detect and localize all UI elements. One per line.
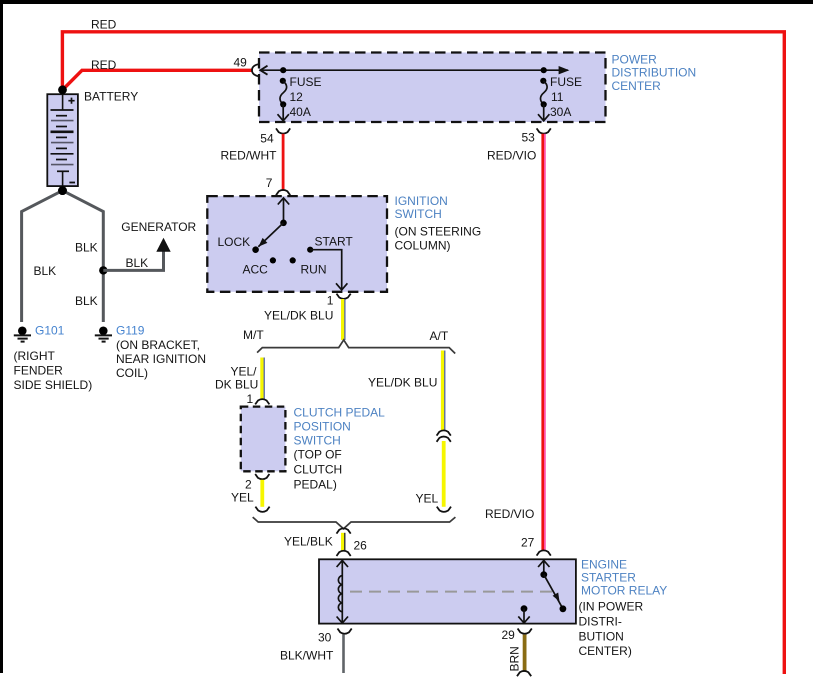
svg-text:SIDE SHIELD): SIDE SHIELD) (14, 378, 93, 392)
pin 2 connector (clutch switch) (255, 474, 269, 479)
svg-text:RED: RED (91, 18, 117, 32)
svg-text:YEL/DK BLU: YEL/DK BLU (368, 376, 437, 390)
svg-text:7: 7 (266, 176, 273, 190)
wire end connector BRN (517, 671, 531, 676)
svg-text:(ON STEERING: (ON STEERING (395, 224, 482, 238)
svg-text:ACC: ACC (243, 262, 269, 276)
wire BLK/WHT from pin 30 (342, 635, 345, 673)
wire end connector M/T (255, 507, 269, 512)
svg-text:(ON BRACKET,: (ON BRACKET, (116, 338, 200, 352)
wire YEL/DK BLU M/T branch (260, 358, 263, 400)
page left black bar (0, 0, 3, 673)
node START contact (307, 247, 313, 253)
svg-text:ENGINE: ENGINE (581, 557, 627, 571)
inline connector on A/T branch (437, 430, 451, 435)
svg-text:SWITCH: SWITCH (395, 207, 442, 221)
node relay fixed contact (560, 605, 567, 612)
svg-text:STARTER: STARTER (581, 571, 636, 585)
wire YEL/DK BLU ignition pin 1 to M/T A/T split (341, 299, 344, 340)
svg-text:54: 54 (260, 132, 274, 146)
pin 53 connector (537, 128, 551, 133)
svg-text:PEDAL): PEDAL) (294, 478, 337, 492)
svg-text:(IN POWER: (IN POWER (579, 599, 644, 613)
svg-text:SWITCH: SWITCH (294, 433, 341, 447)
svg-text:DK BLU: DK BLU (215, 378, 258, 392)
svg-text:30A: 30A (550, 105, 571, 119)
wire START contact to pin 1 (310, 250, 342, 290)
node battery negative terminal (58, 186, 67, 195)
svg-text:CLUTCH PEDAL: CLUTCH PEDAL (294, 405, 386, 419)
node RUN contact (290, 257, 296, 263)
pin 49 connector (252, 64, 258, 76)
svg-text:COIL): COIL) (116, 366, 148, 380)
wire YEL/BLK splice to relay pin 26 (341, 533, 344, 551)
svg-text:YEL/: YEL/ (231, 365, 258, 379)
relay internal dashed divider (350, 591, 555, 593)
svg-text:G119: G119 (116, 323, 145, 337)
svg-text:FENDER: FENDER (14, 364, 64, 378)
svg-text:BLK: BLK (75, 294, 98, 308)
svg-text:BRN: BRN (508, 646, 522, 671)
svg-text:POWER: POWER (612, 52, 658, 66)
node battery negative terminal (overlay) (58, 186, 67, 195)
svg-text:RUN: RUN (301, 262, 327, 276)
ground G101 (14, 327, 31, 342)
pin 29 connector (518, 629, 532, 634)
wire BLK battery negative to G119 (63, 191, 104, 322)
svg-text:FUSE: FUSE (550, 75, 582, 89)
node relay switch pivot (540, 571, 547, 578)
joint connector below splice (337, 528, 351, 533)
engine starter motor relay box (319, 559, 576, 623)
relay coil (337, 560, 348, 623)
svg-text:GENERATOR: GENERATOR (121, 220, 196, 234)
svg-text:49: 49 (234, 55, 248, 69)
svg-text:1: 1 (327, 293, 334, 307)
wire RED/WHT pin 54 to ignition switch pin 7 (282, 134, 285, 191)
svg-text:YEL/BLK: YEL/BLK (284, 535, 333, 549)
arrow to GENERATOR (156, 238, 170, 252)
svg-text:2: 2 (245, 477, 252, 491)
svg-text:G101: G101 (35, 323, 65, 337)
ignition rotor arm to LOCK (258, 223, 283, 247)
svg-text:11: 11 (551, 90, 564, 104)
svg-text:A/T: A/T (430, 329, 449, 343)
svg-text:CLUTCH: CLUTCH (294, 463, 343, 477)
svg-text:RED/VIO: RED/VIO (485, 507, 534, 521)
svg-text:12: 12 (290, 90, 304, 104)
node ignition rotor pivot (280, 220, 287, 227)
pin 1 connector (ignition) (337, 294, 351, 299)
svg-text:RED/VIO: RED/VIO (487, 149, 536, 163)
svg-text:29: 29 (502, 628, 516, 642)
svg-text:NEAR IGNITION: NEAR IGNITION (116, 352, 206, 366)
svg-text:BUTION: BUTION (579, 629, 624, 643)
relay switch blade (544, 575, 563, 609)
wire RED battery to PDC pin 49 (62, 70, 252, 90)
wire YEL M/T branch lower (260, 480, 264, 507)
node battery positive terminal (58, 85, 67, 94)
svg-text:30: 30 (318, 630, 332, 644)
svg-text:YEL: YEL (416, 491, 439, 505)
splice split M/T A/T (257, 340, 455, 354)
node ACC contact (270, 257, 276, 263)
svg-text:1: 1 (247, 392, 254, 406)
svg-text:CENTER): CENTER) (579, 644, 632, 658)
svg-text:BLK: BLK (75, 240, 98, 254)
power distribution center box (259, 53, 606, 123)
pin 7 connector (276, 190, 290, 195)
wire BLK junction to generator (103, 252, 163, 271)
svg-text:YEL: YEL (231, 491, 254, 505)
svg-text:RED/WHT: RED/WHT (221, 149, 278, 163)
svg-text:MOTOR RELAY: MOTOR RELAY (581, 584, 667, 598)
svg-text:40A: 40A (290, 105, 311, 119)
node LOCK contact (252, 246, 259, 253)
svg-text:DISTRI-: DISTRI- (579, 615, 622, 629)
pin 26 connector (337, 551, 351, 556)
wire YEL A/T branch lower (442, 441, 446, 507)
ignition switch internal feed arrow (283, 198, 285, 223)
pin 27 connector (537, 550, 551, 555)
splice join to YEL/BLK (253, 517, 456, 529)
svg-text:LOCK: LOCK (218, 235, 251, 249)
svg-text:YEL/DK BLU: YEL/DK BLU (264, 309, 333, 323)
wire BLK battery negative to G101 (22, 191, 63, 322)
junction on BLK wire (99, 266, 107, 274)
svg-text:BLK/WHT: BLK/WHT (280, 648, 334, 662)
battery BATTERY (47, 94, 78, 186)
svg-text:IGNITION: IGNITION (395, 194, 448, 208)
wire RED/VIO pin 53 to relay pin 27 (541, 134, 544, 551)
ground G119 (95, 327, 112, 342)
wire BRN from pin 29 (523, 635, 527, 672)
svg-text:FUSE: FUSE (290, 75, 322, 89)
svg-text:RED: RED (91, 58, 117, 72)
svg-text:27: 27 (521, 536, 535, 550)
wire end connector A/T (437, 507, 451, 512)
wire PDC internal bus (260, 69, 568, 71)
svg-text:26: 26 (354, 538, 368, 552)
svg-text:DISTRIBUTION: DISTRIBUTION (612, 66, 697, 80)
pin 1 connector (clutch switch) (255, 399, 269, 404)
svg-text:M/T: M/T (243, 328, 264, 342)
clutch pedal position switch box (241, 407, 286, 472)
svg-text:START: START (315, 234, 354, 248)
svg-text:BLK: BLK (34, 264, 57, 278)
fuse 11 30A (538, 67, 549, 121)
pin 30 connector (338, 629, 352, 634)
relay switch common from pin 27 (543, 560, 545, 574)
svg-text:53: 53 (522, 130, 536, 144)
svg-text:COLUMN): COLUMN) (395, 238, 451, 252)
svg-text:BATTERY: BATTERY (84, 90, 138, 104)
svg-text:BLK: BLK (126, 256, 149, 270)
fuse 12 40A (278, 67, 289, 121)
page top black bar (0, 0, 813, 4)
wire relay contact to pin 29 (523, 609, 525, 623)
pin 54 connector (276, 128, 290, 133)
svg-text:POSITION: POSITION (294, 419, 351, 433)
wire YEL/DK BLU A/T branch (441, 351, 444, 432)
svg-text:(RIGHT: (RIGHT (14, 349, 56, 363)
svg-text:(TOP OF: (TOP OF (294, 448, 342, 462)
node relay contact to pin 29 (521, 605, 528, 612)
svg-text:CENTER: CENTER (612, 79, 662, 93)
ignition switch box (207, 196, 387, 292)
